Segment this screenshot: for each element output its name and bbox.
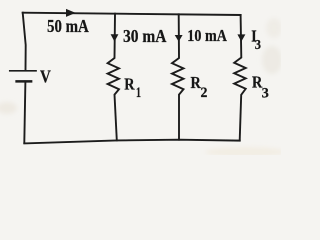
svg-text:30 mA: 30 mA: [123, 26, 167, 46]
svg-text:10 mA: 10 mA: [187, 26, 227, 45]
svg-text:R: R: [124, 74, 135, 93]
svg-text:V: V: [40, 66, 51, 86]
svg-text:3: 3: [262, 85, 269, 101]
svg-text:1: 1: [136, 85, 141, 101]
svg-text:50 mA: 50 mA: [47, 16, 89, 36]
svg-text:2: 2: [201, 85, 208, 101]
svg-text:3: 3: [255, 38, 261, 53]
